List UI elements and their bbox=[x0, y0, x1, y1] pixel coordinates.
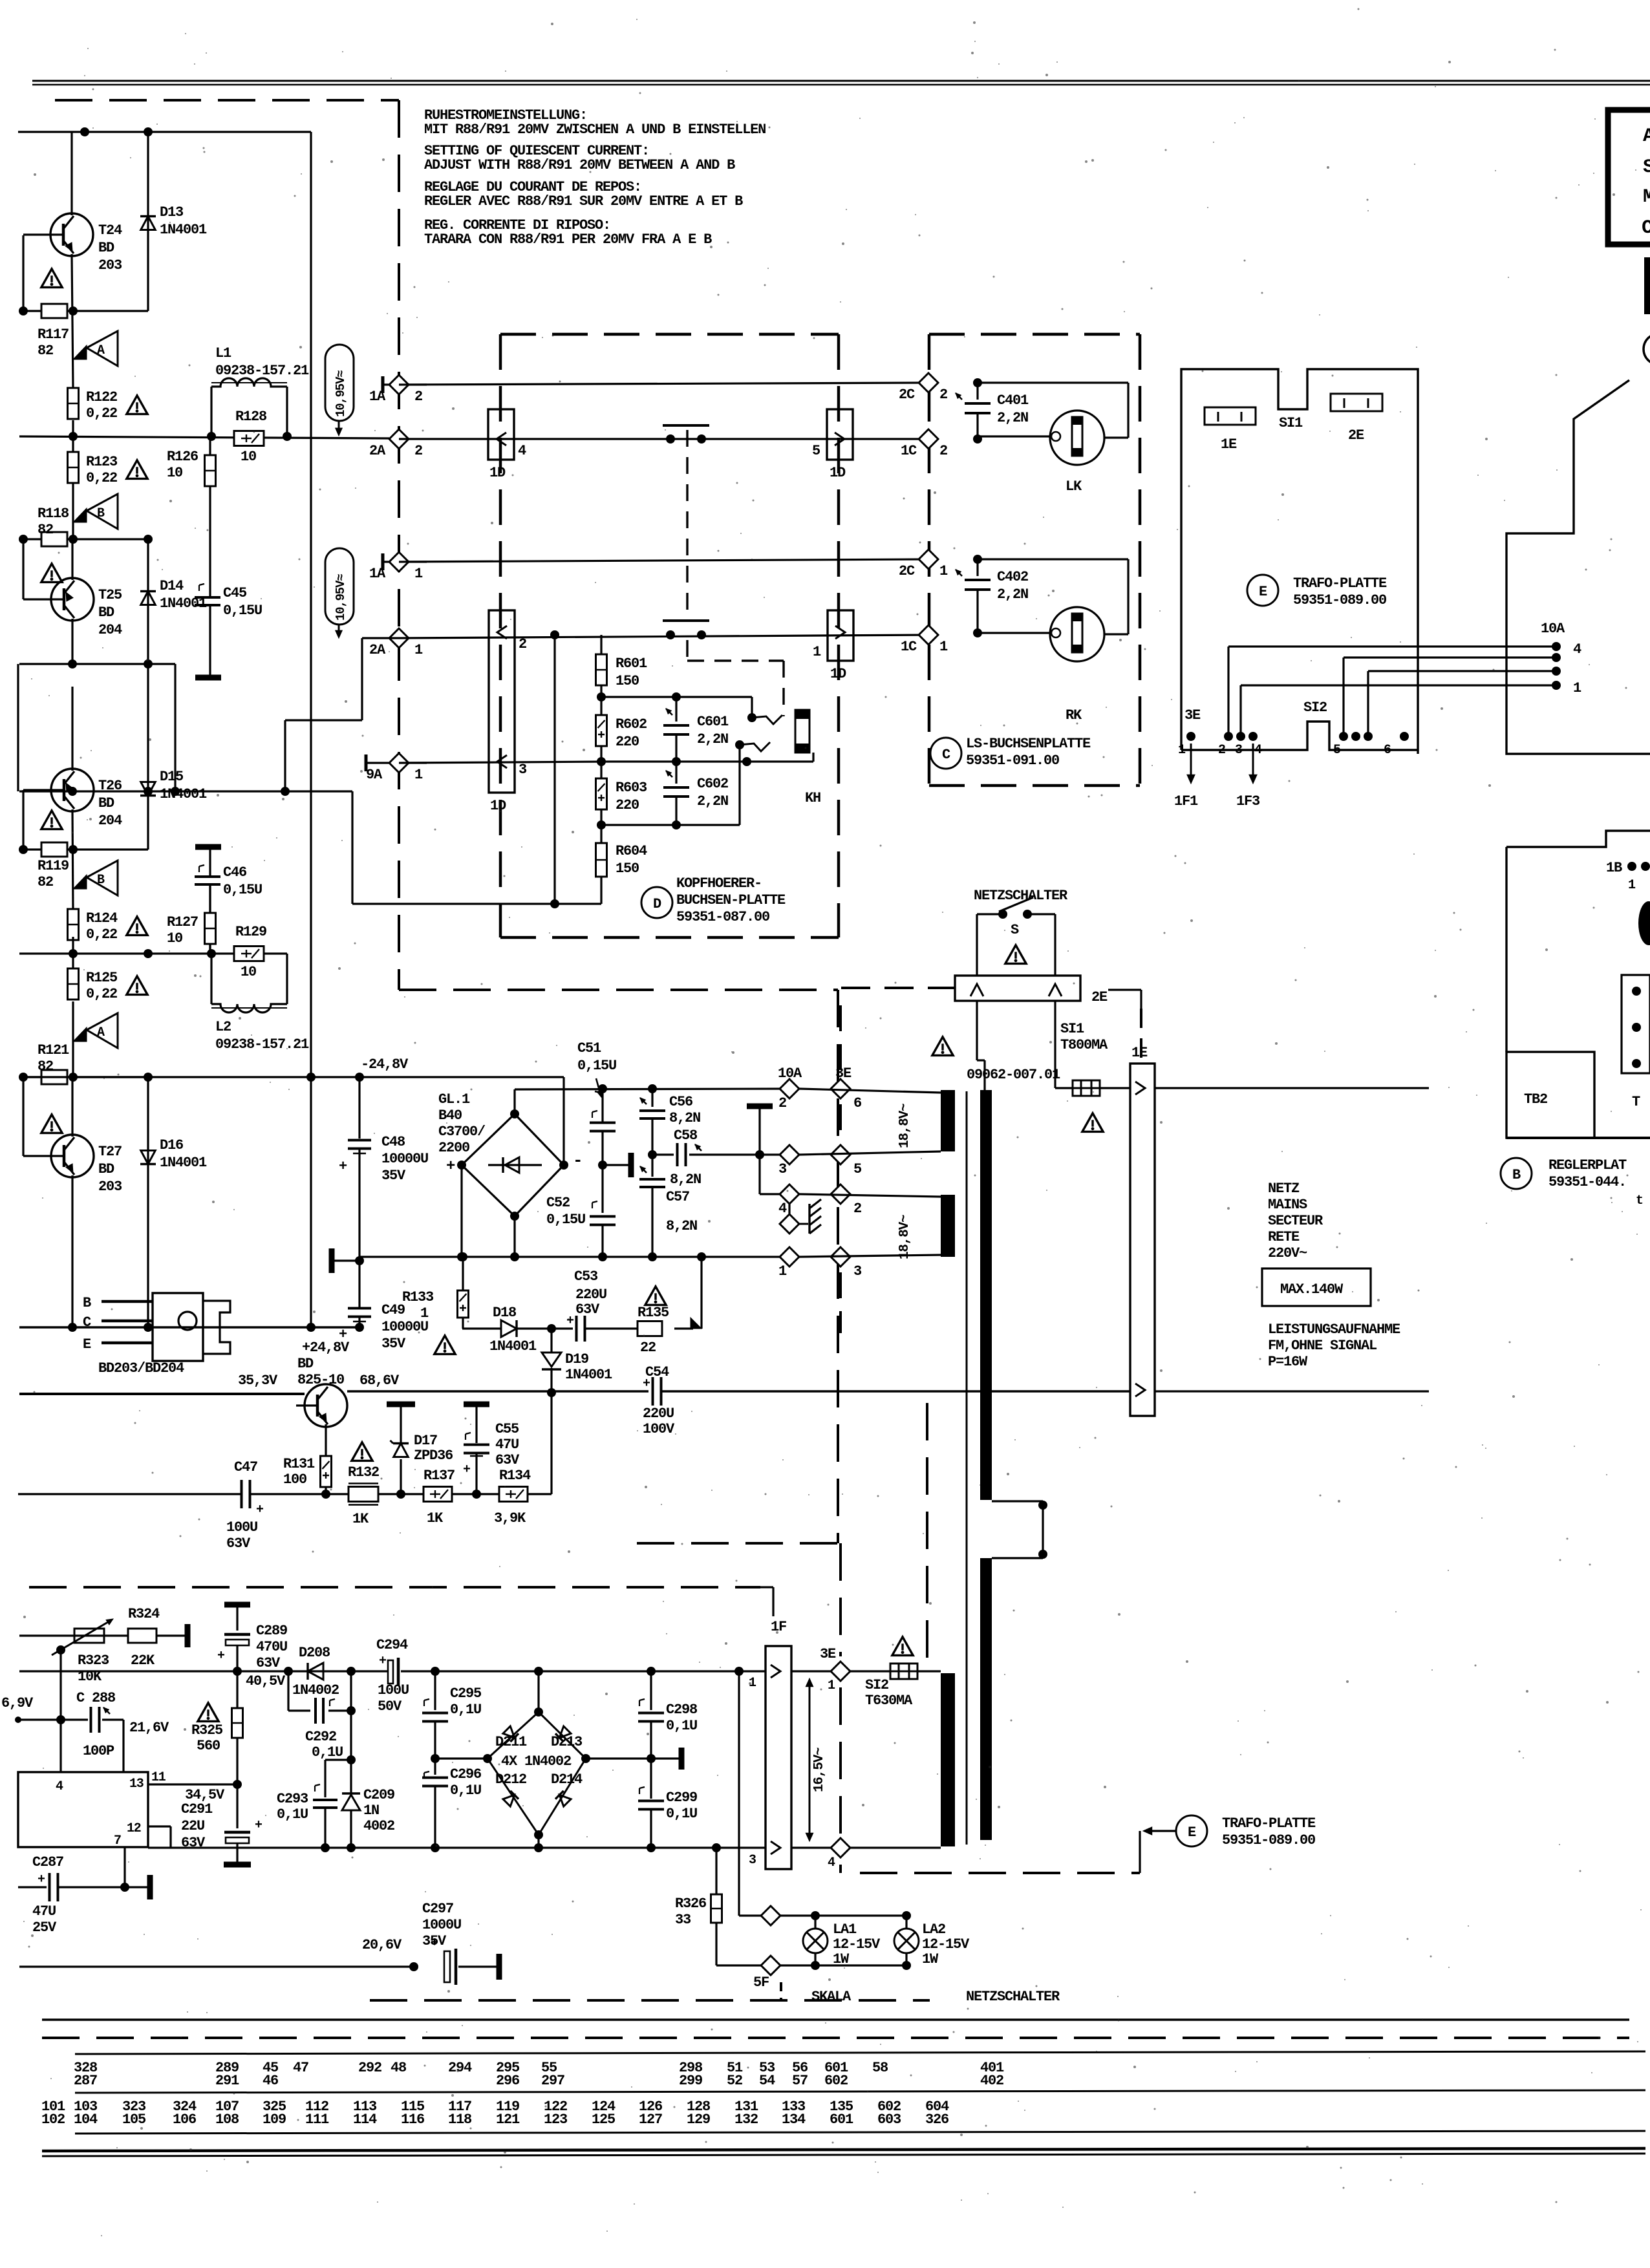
resistor R123 bbox=[68, 452, 79, 483]
primary tap jumper bbox=[992, 1500, 1043, 1502]
svg-text:127: 127 bbox=[639, 2112, 662, 2128]
wire bridge minus drop bbox=[562, 1077, 564, 1165]
transformer core line bbox=[966, 1091, 968, 1845]
svg-text:20,6V: 20,6V bbox=[362, 1937, 402, 1953]
svg-text:560: 560 bbox=[197, 1738, 220, 1754]
svg-text:R132: R132 bbox=[348, 1464, 379, 1481]
svg-text:203: 203 bbox=[98, 1179, 122, 1195]
wire T24 base to x36 bbox=[23, 233, 42, 235]
wire row 679 to right bbox=[399, 438, 928, 440]
svg-text:12-15V: 12-15V bbox=[833, 1936, 881, 1952]
svg-text:C: C bbox=[83, 1314, 91, 1331]
svg-text:+: + bbox=[463, 1462, 471, 1477]
svg-text:1D: 1D bbox=[489, 465, 506, 481]
resistor R125 bbox=[68, 968, 79, 1000]
svg-text:1: 1 bbox=[414, 566, 423, 582]
svg-text:59351-089.00: 59351-089.00 bbox=[1293, 592, 1386, 608]
svg-text:C292: C292 bbox=[305, 1729, 336, 1745]
svg-text:68,6V: 68,6V bbox=[359, 1373, 400, 1389]
svg-text:47U: 47U bbox=[32, 1903, 56, 1920]
svg-text:8,2N: 8,2N bbox=[669, 1110, 700, 1126]
svg-text:LEISTUNGSAUFNAHME: LEISTUNGSAUFNAHME bbox=[1268, 1321, 1400, 1338]
rail C upper bbox=[19, 1670, 389, 1672]
wire elbow x271 bbox=[174, 664, 176, 791]
headphone contact on wire 982 bbox=[666, 630, 675, 639]
svg-text:0,22: 0,22 bbox=[86, 405, 117, 422]
svg-text:A: A bbox=[97, 1025, 105, 1040]
switch S bbox=[998, 910, 1007, 919]
svg-text:C209: C209 bbox=[363, 1787, 394, 1803]
wire rail y675 bbox=[19, 436, 389, 438]
headphone contact on wire 679 bbox=[666, 434, 675, 444]
svg-text:C56: C56 bbox=[669, 1094, 692, 1110]
wire pin12 stub bbox=[148, 1825, 171, 1827]
svg-text:2: 2 bbox=[778, 1095, 786, 1111]
svg-text:18,8V~: 18,8V~ bbox=[897, 1215, 912, 1259]
svg-text:S: S bbox=[1011, 922, 1019, 938]
warning triangle switch bbox=[1005, 945, 1026, 964]
svg-text:LK: LK bbox=[1066, 478, 1082, 495]
svg-text:C296: C296 bbox=[450, 1766, 481, 1782]
svg-text:220V~: 220V~ bbox=[1268, 1245, 1307, 1261]
top right instruction box bbox=[1608, 110, 1650, 244]
svg-text:C47: C47 bbox=[234, 1459, 257, 1475]
connector diamond 9A/1 bbox=[365, 754, 368, 771]
connector diamond 5F bbox=[761, 1956, 780, 1975]
svg-text:63V: 63V bbox=[495, 1452, 520, 1468]
svg-text:C298: C298 bbox=[666, 1702, 698, 1718]
chassis stub mid bbox=[603, 1164, 628, 1166]
wire C288 to pin13 bbox=[122, 1720, 124, 1772]
mechanical linkage dashed bbox=[686, 430, 688, 615]
svg-text:R123: R123 bbox=[86, 454, 118, 470]
package drawing BD203/BD204 bbox=[153, 1293, 203, 1361]
bridge diode marks bbox=[502, 1726, 519, 1742]
svg-text:C51: C51 bbox=[577, 1040, 601, 1056]
dashed boundary x1300 lower right bbox=[839, 1543, 842, 1656]
wire T26 base bbox=[23, 789, 43, 791]
wire row 1178 nodes bbox=[597, 757, 606, 766]
svg-text:10: 10 bbox=[241, 964, 256, 980]
svg-text:R121: R121 bbox=[37, 1042, 69, 1058]
wire diamond 4 to bar bbox=[850, 1846, 941, 1848]
jack switch contacts bbox=[752, 715, 782, 724]
svg-text:132: 132 bbox=[734, 2112, 758, 2128]
svg-text:TARARA CON R88/R91 PER 20MV FR: TARARA CON R88/R91 PER 20MV FRA A E B bbox=[424, 231, 712, 248]
svg-text:4: 4 bbox=[518, 443, 526, 459]
warning triangle T27 bbox=[41, 1115, 62, 1133]
riser to lamp row bbox=[738, 1671, 740, 1916]
svg-text:22: 22 bbox=[640, 1340, 656, 1356]
wire T27 base bbox=[23, 1155, 43, 1157]
voltage oval 10,95V upper bbox=[325, 345, 354, 421]
svg-text:287: 287 bbox=[74, 2073, 97, 2089]
svg-text:E: E bbox=[83, 1336, 91, 1353]
wire main vertical bus x481 bbox=[310, 132, 312, 1327]
warning triangle R132 bbox=[352, 1442, 372, 1461]
separator line y3124 bbox=[42, 2018, 1629, 2020]
connector diamond 2C/2 bbox=[919, 373, 938, 392]
svg-text:0,22: 0,22 bbox=[86, 986, 117, 1002]
wire bridge plus to row D bbox=[460, 1165, 462, 1257]
svg-text:10A: 10A bbox=[778, 1065, 802, 1082]
connector diamond 1C/1 bbox=[919, 625, 938, 645]
svg-text:10: 10 bbox=[241, 449, 256, 465]
dashed box D headphone board bbox=[500, 333, 839, 336]
svg-text:R325: R325 bbox=[191, 1722, 223, 1738]
transistor T27 bbox=[51, 1135, 94, 1177]
svg-text:KH: KH bbox=[805, 790, 820, 806]
svg-text:T800MA: T800MA bbox=[1060, 1037, 1108, 1053]
resistor R135 bbox=[637, 1321, 662, 1336]
svg-text:134: 134 bbox=[782, 2112, 806, 2128]
svg-text:402: 402 bbox=[980, 2073, 1003, 2089]
wire bridge top to row A bbox=[513, 1089, 515, 1114]
dashed through 3E column bbox=[839, 1005, 842, 1073]
svg-text:0,15U: 0,15U bbox=[223, 882, 262, 898]
wire pin11 row bbox=[148, 1783, 237, 1785]
wire lamp rows bbox=[779, 1914, 906, 1916]
svg-text:294: 294 bbox=[448, 2060, 472, 2076]
svg-text:NETZ: NETZ bbox=[1268, 1181, 1300, 1197]
capacitor C56 bbox=[651, 1089, 653, 1107]
svg-text:+: + bbox=[379, 1654, 387, 1669]
wire T24 collector bbox=[70, 132, 72, 215]
wire KH sleeve bbox=[812, 753, 814, 762]
partial circle right edge bbox=[1644, 334, 1650, 365]
svg-text:8,2N: 8,2N bbox=[666, 1218, 697, 1234]
svg-text:10A: 10A bbox=[1541, 621, 1565, 637]
svg-text:2,2N: 2,2N bbox=[997, 410, 1028, 426]
svg-text:1: 1 bbox=[1178, 743, 1186, 758]
svg-text:13: 13 bbox=[129, 1777, 144, 1792]
svg-text:C57: C57 bbox=[666, 1189, 689, 1205]
svg-text:296: 296 bbox=[496, 2073, 519, 2089]
svg-text:R129: R129 bbox=[235, 924, 266, 940]
svg-text:+: + bbox=[446, 1158, 455, 1175]
svg-text:C289: C289 bbox=[256, 1623, 287, 1639]
svg-text:R117: R117 bbox=[37, 326, 69, 343]
capacitor C49 10000U bbox=[348, 1307, 371, 1310]
capacitor C295 bbox=[434, 1671, 436, 1710]
svg-text:7: 7 bbox=[114, 1834, 121, 1848]
warning triangle R125 bbox=[127, 976, 147, 995]
svg-text:82: 82 bbox=[37, 522, 53, 538]
wire rows to transformer bbox=[799, 1089, 941, 1093]
table mid rule bbox=[75, 2090, 1645, 2093]
warning triangle fuse SI1 bbox=[1082, 1113, 1103, 1132]
wire 1E mains out upper bbox=[1155, 1087, 1429, 1089]
warning triangle R133 bbox=[434, 1336, 455, 1354]
diode D13 bbox=[147, 132, 149, 311]
svg-text:125: 125 bbox=[592, 2112, 616, 2128]
page border top double rule bbox=[32, 80, 1650, 82]
diode D208 bbox=[308, 1663, 323, 1680]
board B outline bbox=[1506, 831, 1650, 847]
svg-text:3: 3 bbox=[749, 1853, 756, 1868]
svg-text:25V: 25V bbox=[32, 1920, 57, 1936]
wire SI2 to secondary bar bbox=[917, 1670, 941, 1672]
svg-text:299: 299 bbox=[679, 2073, 702, 2089]
svg-text:A: A bbox=[1643, 125, 1650, 147]
arrow 1F1 bbox=[1190, 744, 1192, 776]
double rule bottom bbox=[42, 2148, 1645, 2151]
svg-text:1000U: 1000U bbox=[422, 1917, 461, 1933]
svg-text:220: 220 bbox=[616, 734, 639, 750]
svg-text:18,8V~: 18,8V~ bbox=[897, 1104, 912, 1148]
svg-text:11: 11 bbox=[151, 1770, 166, 1785]
wire rail B emitter line bbox=[19, 1393, 305, 1395]
svg-text:SI1: SI1 bbox=[1060, 1021, 1084, 1037]
wire bridge top riser bbox=[537, 1671, 539, 1712]
svg-text:470U: 470U bbox=[256, 1639, 287, 1655]
svg-text:150: 150 bbox=[616, 673, 639, 689]
capacitor C291 bbox=[236, 1784, 238, 1828]
svg-text:BD: BD bbox=[297, 1356, 314, 1372]
capacitor C296 bbox=[422, 1777, 448, 1779]
svg-text:1: 1 bbox=[813, 644, 821, 660]
lamp LA2 bbox=[905, 1916, 907, 1929]
transformer secondary bar mid bbox=[941, 1195, 955, 1257]
svg-text:+: + bbox=[256, 1503, 264, 1517]
svg-text:100U: 100U bbox=[378, 1682, 409, 1698]
svg-text:10,95V≈: 10,95V≈ bbox=[334, 574, 348, 621]
svg-text:C54: C54 bbox=[645, 1364, 669, 1380]
svg-text:R122: R122 bbox=[86, 389, 117, 405]
svg-text:118: 118 bbox=[448, 2112, 472, 2128]
svg-text:0,22: 0,22 bbox=[86, 470, 117, 486]
svg-text:T27: T27 bbox=[98, 1144, 122, 1160]
transistor T28 BD825-10 bbox=[305, 1384, 347, 1427]
wire 1F pin1 to 3E bbox=[791, 1670, 831, 1672]
svg-text:0,1U: 0,1U bbox=[312, 1744, 343, 1760]
svg-text:R134: R134 bbox=[499, 1468, 531, 1484]
resistor R121 bbox=[41, 1070, 67, 1084]
svg-text:T25: T25 bbox=[98, 587, 122, 603]
svg-text:59351-044.: 59351-044. bbox=[1548, 1174, 1626, 1190]
rail D lower bbox=[148, 1846, 766, 1848]
svg-text:BD: BD bbox=[98, 795, 114, 811]
arrow E to board bbox=[1148, 1830, 1176, 1832]
resistor R131 bbox=[321, 1456, 332, 1487]
svg-text:D19: D19 bbox=[565, 1351, 588, 1367]
wire feed 2A/1 bbox=[362, 637, 399, 639]
svg-text:2: 2 bbox=[939, 443, 947, 459]
svg-text:603: 603 bbox=[877, 2112, 901, 2128]
svg-text:P=16W: P=16W bbox=[1268, 1354, 1308, 1370]
wire R604 return bbox=[600, 877, 602, 904]
ground diamond and symbol bbox=[788, 1194, 790, 1224]
wire R123 to arrow B bbox=[72, 483, 74, 539]
svg-text:100V: 100V bbox=[643, 1421, 675, 1437]
capacitor C48 10000U bbox=[358, 1077, 360, 1139]
wire T25 base bbox=[23, 598, 43, 600]
svg-text:ZPD36: ZPD36 bbox=[414, 1448, 453, 1464]
wire base node y481 bbox=[23, 310, 148, 312]
svg-text:B40: B40 bbox=[438, 1107, 462, 1124]
wire base node row bbox=[326, 1493, 552, 1495]
resistor R324 bbox=[128, 1629, 156, 1643]
svg-text:REGLER AVEC R88/R91 SUR 20MV E: REGLER AVEC R88/R91 SUR 20MV ENTRE A ET … bbox=[424, 193, 743, 209]
resistor R604 bbox=[596, 843, 607, 877]
svg-text:63V: 63V bbox=[226, 1535, 251, 1552]
warning triangle T24 bbox=[41, 269, 62, 288]
svg-text:1N: 1N bbox=[363, 1803, 379, 1819]
svg-text:602: 602 bbox=[824, 2073, 848, 2089]
svg-text:220U: 220U bbox=[575, 1287, 606, 1303]
capacitor C292 loop bbox=[287, 1671, 289, 1711]
svg-text:0,1U: 0,1U bbox=[666, 1718, 697, 1734]
svg-text:C291: C291 bbox=[181, 1801, 213, 1817]
svg-text:0,15U: 0,15U bbox=[546, 1212, 585, 1228]
wire riser row D to R135 bbox=[700, 1257, 702, 1329]
svg-text:21,6V: 21,6V bbox=[129, 1720, 169, 1736]
svg-text:40,5V: 40,5V bbox=[246, 1673, 286, 1689]
svg-text:BD: BD bbox=[98, 240, 114, 256]
headphone jack KH bbox=[795, 710, 809, 753]
svg-text:106: 106 bbox=[173, 2112, 196, 2128]
svg-text:0,1U: 0,1U bbox=[277, 1806, 308, 1823]
svg-text:105: 105 bbox=[122, 2112, 146, 2128]
svg-text:2A: 2A bbox=[369, 443, 386, 459]
svg-text:326: 326 bbox=[925, 2112, 948, 2128]
svg-text:297: 297 bbox=[541, 2073, 564, 2089]
svg-text:59351-091.00: 59351-091.00 bbox=[966, 753, 1059, 769]
svg-text:D14: D14 bbox=[160, 578, 184, 594]
diode D15 bbox=[147, 664, 149, 850]
svg-text:204: 204 bbox=[98, 622, 122, 638]
svg-text:2: 2 bbox=[414, 443, 422, 459]
svg-text:203: 203 bbox=[98, 257, 122, 273]
resistor R603 bbox=[596, 778, 607, 809]
svg-text:R125: R125 bbox=[86, 970, 118, 986]
svg-text:T24: T24 bbox=[98, 222, 122, 239]
svg-text:MAINS: MAINS bbox=[1268, 1197, 1307, 1213]
connector box 1D pair1 right bbox=[827, 409, 853, 460]
wires 10A to pins bbox=[1228, 645, 1556, 647]
svg-text:C401: C401 bbox=[997, 392, 1029, 409]
svg-text:1F1: 1F1 bbox=[1174, 793, 1198, 809]
svg-text:2C: 2C bbox=[899, 387, 915, 403]
svg-text:1E: 1E bbox=[1131, 1045, 1148, 1061]
transformer secondary bar lower bbox=[941, 1673, 955, 1846]
svg-text:5: 5 bbox=[853, 1161, 862, 1177]
svg-text:35V: 35V bbox=[381, 1168, 406, 1184]
svg-text:2: 2 bbox=[1218, 743, 1225, 758]
svg-text:47U: 47U bbox=[495, 1437, 519, 1453]
svg-text:1D: 1D bbox=[830, 465, 846, 481]
svg-text:D208: D208 bbox=[299, 1645, 330, 1661]
svg-text:C293: C293 bbox=[277, 1791, 308, 1807]
svg-text:LS-BUCHSENPLATTE: LS-BUCHSENPLATTE bbox=[966, 736, 1091, 752]
svg-text:C 288: C 288 bbox=[76, 1690, 116, 1706]
svg-text:601: 601 bbox=[830, 2112, 853, 2128]
svg-text:0,1U: 0,1U bbox=[450, 1702, 481, 1718]
svg-text:SI2: SI2 bbox=[865, 1677, 888, 1693]
svg-text:R135: R135 bbox=[637, 1305, 669, 1321]
svg-text:C: C bbox=[1642, 217, 1650, 239]
wire row 987 to right bbox=[399, 635, 928, 638]
svg-text:TRAFO-PLATTE: TRAFO-PLATTE bbox=[1222, 1815, 1316, 1832]
svg-text:2: 2 bbox=[519, 636, 526, 652]
svg-text:1: 1 bbox=[1573, 680, 1581, 696]
wire switch to primary bbox=[976, 1001, 978, 1060]
svg-text:4X 1N4002: 4X 1N4002 bbox=[501, 1753, 571, 1770]
svg-text:6: 6 bbox=[1384, 743, 1391, 758]
svg-text:LA1: LA1 bbox=[833, 1921, 857, 1938]
board E bottom edge with SI2 notch bbox=[1181, 722, 1418, 750]
svg-text:+: + bbox=[339, 1159, 347, 1175]
svg-text:R119: R119 bbox=[37, 858, 69, 874]
wire T25 collector/emitter bbox=[71, 539, 73, 580]
svg-text:+: + bbox=[339, 1327, 347, 1343]
svg-text:12: 12 bbox=[127, 1821, 141, 1836]
capacitor C601 bbox=[675, 697, 677, 722]
wire R603 bottom node bbox=[600, 809, 602, 853]
speaker jack RK bbox=[1050, 607, 1104, 661]
wire rail B to right bbox=[1155, 1390, 1429, 1392]
wire rail E 20,6V bbox=[19, 1965, 414, 1967]
svg-text:B: B bbox=[97, 873, 105, 888]
black blob below box bbox=[1644, 257, 1650, 314]
arrow A marker 1 bbox=[87, 331, 118, 366]
warning triangle R122 bbox=[127, 396, 147, 414]
svg-text:D211: D211 bbox=[495, 1734, 527, 1750]
terminator above C58 node bbox=[758, 1107, 760, 1155]
dashed below 5F bbox=[780, 1982, 782, 2000]
svg-text:1N4001: 1N4001 bbox=[160, 1155, 207, 1171]
svg-text:121: 121 bbox=[496, 2112, 520, 2128]
svg-text:09062-007.01: 09062-007.01 bbox=[967, 1067, 1060, 1083]
fuse SI2 T630MA bbox=[850, 1670, 890, 1672]
svg-text:TRAFO-PLATTE: TRAFO-PLATTE bbox=[1293, 575, 1387, 592]
label B REGLERPLATTE bbox=[1501, 1158, 1532, 1189]
svg-text:+: + bbox=[217, 1649, 225, 1664]
wire T26 collector bbox=[71, 687, 73, 771]
svg-text:108: 108 bbox=[215, 2112, 239, 2128]
capacitor C401 bbox=[973, 378, 982, 387]
connector diamond 1C/2 bbox=[919, 429, 938, 449]
svg-text:1A: 1A bbox=[369, 566, 386, 582]
svg-text:1C: 1C bbox=[901, 443, 917, 459]
capacitor C57 bbox=[651, 1155, 653, 1177]
svg-text:5F: 5F bbox=[753, 1974, 769, 1991]
svg-text:C58: C58 bbox=[674, 1128, 698, 1144]
svg-text:22U: 22U bbox=[181, 1818, 204, 1834]
svg-text:D: D bbox=[653, 896, 661, 912]
svg-text:52: 52 bbox=[727, 2073, 742, 2089]
svg-text:C297: C297 bbox=[422, 1901, 453, 1917]
dashed boundary y3094 segment bbox=[370, 1999, 930, 2002]
dashed boundary y2455 amp section bottom bbox=[29, 1586, 760, 1589]
svg-text:1N4001: 1N4001 bbox=[565, 1367, 612, 1383]
svg-text:1: 1 bbox=[828, 1678, 835, 1693]
wire pin4 riser bbox=[59, 1720, 61, 1772]
label E TRAFO-PLATTE upper bbox=[1247, 575, 1278, 606]
fuse SI1 T800MA bbox=[1073, 1080, 1100, 1096]
svg-text:3: 3 bbox=[1235, 743, 1242, 758]
svg-text:0,1U: 0,1U bbox=[666, 1806, 697, 1822]
svg-text:129: 129 bbox=[687, 2112, 710, 2128]
wire rail y1475 bbox=[19, 952, 287, 954]
wire 2E corner right bbox=[1108, 989, 1141, 990]
svg-text:SI1: SI1 bbox=[1279, 415, 1303, 431]
connector diamond 1A/2 bbox=[381, 376, 385, 393]
svg-text:C295: C295 bbox=[450, 1685, 482, 1702]
svg-text:291: 291 bbox=[215, 2073, 239, 2089]
svg-text:R324: R324 bbox=[128, 1606, 160, 1622]
svg-text:2C: 2C bbox=[899, 563, 915, 579]
